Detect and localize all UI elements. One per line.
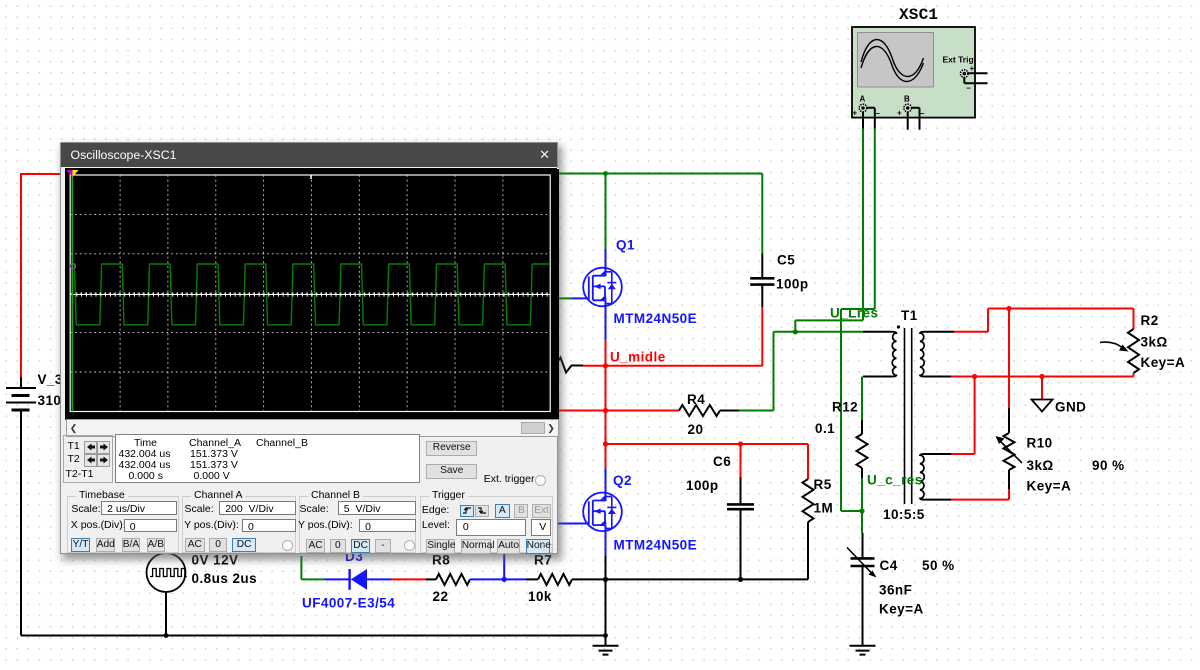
wire: A probe black stubs [863,108,875,129]
terminal A [859,104,867,112]
svg-text:3kΩ: 3kΩ [1027,458,1054,473]
transistor Q1 [583,268,622,307]
wire: C5 bottom red [761,307,763,366]
transformer T1 [863,328,954,504]
svg-text:C6: C6 [713,454,731,469]
oscilloscope icon XSC1 [852,27,975,118]
svg-text:R10: R10 [1027,436,1053,451]
junction green top rail [603,171,608,176]
svg-text:C4: C4 [880,558,898,573]
resistor R2 potentiometer [1133,309,1135,330]
junction R4 rail [603,408,608,413]
svg-text:3kΩ: 3kΩ [1141,335,1168,350]
svg-text:MTM24N50E: MTM24N50E [614,538,698,553]
resistor R5 [803,479,814,522]
wire: bottom device rail [572,578,808,580]
svg-text:XSC1: XSC1 [899,6,938,24]
wire: Q1 drain green [605,174,607,250]
wire: mid tap down to lower coil [951,377,975,455]
capacitor C5 [750,254,774,308]
junction U_c_res [859,508,864,513]
svg-text:Q1: Q1 [616,238,635,253]
wire: Ext Trig stubs [964,73,987,83]
svg-text:R2: R2 [1141,313,1159,328]
svg-text:T1: T1 [901,308,918,323]
wire: Q2 top rail red [606,444,809,479]
svg-text:10:5:5: 10:5:5 [883,507,925,522]
svg-text:36nF: 36nF [879,583,912,598]
ground GND symbol [1032,400,1053,412]
resistor R4 [679,405,720,416]
wire: secondary top red [954,309,1134,332]
svg-text:U_c_res: U_c_res [867,473,923,488]
diode D3 [325,569,392,590]
svg-text:C5: C5 [777,253,795,268]
wire: Q1 source blue [605,301,607,340]
svg-text:+: + [853,109,858,118]
svg-text:–: – [967,84,972,93]
wire: GND drop red [1041,377,1043,400]
capacitor C6 [727,477,754,579]
svg-text:R4: R4 [687,392,705,407]
wire: B probe stubs [908,108,920,130]
svg-text:50 %: 50 % [922,558,955,573]
junction U_midle [603,363,608,368]
svg-text:UF4007-E3/54: UF4007-E3/54 [302,596,395,611]
ground symbol under C4 [850,646,876,655]
terminal B [904,104,912,112]
svg-text:A: A [860,95,866,104]
svg-text:22: 22 [433,589,449,604]
wire: green top rail [558,173,762,175]
svg-text:R7: R7 [534,553,552,568]
terminal Ext Trig [961,70,969,78]
wire: battery positive red [21,174,61,377]
svg-text:100p: 100p [686,478,719,493]
svg-text:R5: R5 [814,477,832,492]
diode D3 net: green from window [301,556,324,579]
wire: R4 rail red left [558,410,679,412]
clock source V2 [147,553,187,636]
wire: Q2 source [605,526,607,557]
svg-text:R8: R8 [432,553,450,568]
svg-text:MTM24N50E: MTM24N50E [614,311,698,326]
transistor Q2 [583,493,622,532]
wire: Q1 source red to U_midle [605,339,607,468]
wire: C6 red lead [740,444,742,477]
svg-text:GND: GND [1055,400,1086,415]
svg-text:1M: 1M [814,501,834,516]
svg-text:+: + [897,109,902,118]
wire: diode to R8 red [391,578,426,580]
svg-text:0.1: 0.1 [815,421,835,436]
svg-text:20: 20 [688,422,704,437]
wire: Q2 drain blue lead [605,468,607,501]
wire: scope A- probe green [841,129,875,511]
resistor R6 partial under window [556,358,583,373]
svg-text:U_Lres: U_Lres [830,306,878,321]
svg-text:0V 12V: 0V 12V [192,553,239,568]
junction primary top [793,329,798,334]
svg-text:U_midle: U_midle [610,350,666,365]
junction: clock to rail [164,633,169,638]
junction Q2 rail left [603,441,608,446]
wire: Q1 drain blue lead [605,249,607,276]
svg-text:Q2: Q2 [613,473,632,488]
oscilloscope window Oscilloscope-XSC1 [60,142,558,555]
resistor R8 [426,578,436,580]
junction C6 top [738,441,743,446]
wire: R4 right black stub [720,410,739,412]
svg-text:+: + [970,64,975,73]
wire: R4 to transformer green [739,332,863,411]
wire: Q1 gate stub [558,297,572,299]
ground symbol bottom center [593,636,619,655]
wire: Q2 gate blue [558,523,589,525]
svg-text:10k: 10k [528,589,552,604]
wire: C5 top green drop [761,174,763,254]
svg-text:B: B [904,95,910,104]
svg-text:–: – [876,109,881,118]
svg-text:Key=A: Key=A [1141,355,1186,370]
svg-text:Key=A: Key=A [1027,479,1072,494]
wire: R10 top red drop [1008,309,1010,409]
wire: bottom ground rail [21,635,606,637]
wire: scope A+ probe green [795,129,863,332]
svg-text:R12: R12 [832,400,858,415]
resistor R12 [861,377,863,421]
wire: R8-R7 blue link [470,554,526,579]
wire: Q2 drain red from rail [605,444,607,468]
resistor R7 [526,578,538,580]
wire: secondary mid rail red [951,376,1134,378]
svg-text:0.8us 2us: 0.8us 2us [192,571,258,586]
capacitor C4 variable [847,533,875,646]
svg-text:Ext Trig: Ext Trig [943,55,974,65]
svg-text:–: – [920,109,925,118]
svg-text:90 %: 90 % [1092,458,1125,473]
svg-text:Key=A: Key=A [879,602,924,617]
battery V_310 [6,377,36,636]
resistor R10 potentiometer [1008,408,1010,433]
wire: U_midle rail red [583,365,762,367]
svg-text:100p: 100p [776,277,809,292]
